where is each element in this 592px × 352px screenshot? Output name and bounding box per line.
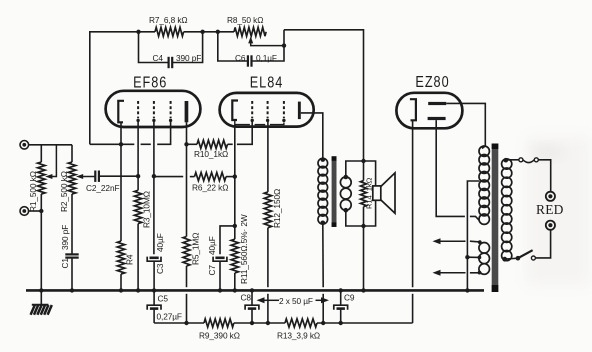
- EF86 cathode electrode: [118, 101, 124, 123]
- wire: cathode/g3/feedback junction line under EF86: [90, 120, 171, 144]
- capacitor C8: [245, 290, 259, 323]
- junction dot C7 top: [233, 224, 237, 228]
- svg-text:C9: C9: [344, 293, 355, 303]
- wire EF86 cathode lead down through R4: [120, 122, 122, 241]
- wire g2 to R6: [154, 176, 195, 178]
- svg-text:R13_3,9 kΩ: R13_3,9 kΩ: [277, 331, 320, 341]
- svg-text:C2_22nF: C2_22nF: [86, 183, 119, 193]
- label EZ80: [415, 74, 449, 91]
- wire terminal2 to R1 bottom lead: [29, 210, 42, 212]
- heater supply lead bottom with arrow: [433, 270, 482, 276]
- svg-text:R6_22 kΩ: R6_22 kΩ: [192, 183, 228, 193]
- capacitor C3 electrolytic: [147, 257, 161, 291]
- power transformer HT secondary winding: [479, 146, 489, 224]
- junction dot C6 left on top wire: [216, 30, 220, 34]
- annotation 2 x 50 uF with arrows: [257, 296, 330, 306]
- junction dot anode/R10: [184, 142, 188, 146]
- svg-text:40µF: 40µF: [155, 233, 165, 252]
- junction dot g2/R6/C3: [152, 174, 156, 178]
- wire EF86 g2 lead down to C3: [153, 120, 155, 254]
- svg-text:EZ80: EZ80: [415, 74, 449, 91]
- output transformer primary winding: [318, 157, 328, 225]
- svg-text:390 pF: 390 pF: [176, 53, 201, 63]
- junction dot C8 bottom: [250, 321, 254, 325]
- output transformer secondary winding: [340, 175, 351, 213]
- ground rail: [26, 289, 484, 292]
- chassis ground symbol: [31, 290, 52, 314]
- junction dot EF86 cathode node: [119, 142, 123, 146]
- wire secondary bottom / speaker bottom return: [346, 200, 376, 226]
- svg-text:R8_50 kΩ: R8_50 kΩ: [227, 15, 263, 25]
- EL84 anode plate: [298, 102, 301, 120]
- junction dot heater CT on ground drop: [465, 255, 469, 259]
- capacitor C6: [218, 30, 284, 67]
- junction dot R14 bottom: [361, 224, 365, 228]
- svg-text:RED: RED: [536, 202, 564, 217]
- RED terminal top: [546, 192, 555, 201]
- junction dot R12 on sub rail: [266, 321, 270, 325]
- EZ80 cathode electrode: [410, 99, 416, 120]
- EF86 anode plate: [185, 101, 189, 122]
- label EL84: [250, 74, 284, 91]
- svg-text:EL84: EL84: [250, 74, 284, 91]
- B+ sub rail from C5 to EZ80 cathode: [154, 322, 413, 324]
- svg-text:C8: C8: [241, 293, 252, 303]
- wire mains top to fuse: [504, 158, 519, 163]
- vacuum tube EZ80 envelope: [396, 93, 462, 129]
- heater centre tap: [467, 256, 481, 260]
- svg-text:R2_500 kΩ: R2_500 kΩ: [59, 171, 69, 212]
- wire EZ80 cathode down to B+ sub-rail: [412, 120, 414, 323]
- wire primary bottom down to B+ sub-rail: [322, 223, 324, 323]
- EL84 cathode electrode: [232, 101, 238, 121]
- resistor R3 grid leak: [134, 190, 141, 290]
- svg-text:C7: C7: [207, 265, 217, 276]
- resistor R4 (EF86 cathode): [117, 241, 124, 290]
- svg-text:EF86: EF86: [133, 74, 167, 91]
- svg-text:2 x 50 µF: 2 x 50 µF: [279, 296, 313, 306]
- label EF86: [133, 74, 167, 91]
- resistor R5: [183, 237, 190, 324]
- svg-text:0,1µF: 0,1µF: [256, 53, 277, 63]
- capacitor C1 in R2 ground leg: [65, 254, 78, 290]
- wire speaker return to ground rail: [363, 226, 365, 290]
- EZ80 anode 2 (bottom bar): [428, 117, 446, 120]
- svg-text:C4: C4: [153, 53, 164, 63]
- input terminal bottom: [20, 207, 29, 216]
- wire terminal1 to R1 top and R2 top: [29, 144, 72, 146]
- wire EZ80 anode1 to HT winding top: [446, 103, 485, 148]
- capacitor C2 coupling to EF86 grid: [95, 171, 138, 182]
- junction dots on ground rail: [39, 288, 469, 292]
- svg-text:R9_390 kΩ: R9_390 kΩ: [199, 331, 240, 341]
- vacuum tube EL84 envelope: [220, 93, 314, 127]
- svg-text:C1: C1: [60, 258, 70, 269]
- junction dot C2/g1/R3: [136, 174, 140, 178]
- potentiometer R1 with leads: [38, 145, 45, 291]
- EL84 grid 1: [251, 101, 254, 122]
- wire EZ80 anode2 down and right to HT winding bottom: [436, 120, 479, 220]
- junction dot R5 on sub rail: [184, 321, 188, 325]
- wire: feedback line from EF86 cathode up and along top: [90, 32, 234, 145]
- EZ80 anode 1 (top bar): [428, 102, 446, 105]
- junction dot C9 bottom: [339, 321, 343, 325]
- wire: top feedback run to output, down to secondary: [284, 30, 364, 161]
- resistor R7: [155, 27, 184, 36]
- wiper arrow of R8: [248, 36, 284, 45]
- resistor R9: [204, 319, 234, 327]
- junction dot primary feed on sub rail: [321, 321, 325, 325]
- wire secondary top to speaker box top: [346, 161, 376, 186]
- wiper arrow of R2: [76, 174, 95, 179]
- EF86 grid 3 (suppressor): [169, 101, 172, 122]
- resistor R6: [195, 173, 235, 181]
- svg-text:C6: C6: [235, 53, 246, 63]
- svg-text:R14_1kΩ: R14_1kΩ: [365, 177, 374, 209]
- junction dot terminal2/R1: [39, 209, 43, 213]
- output transformer core: [332, 156, 337, 227]
- resistor R10 grid stopper with leads: [187, 120, 253, 148]
- wire EF86 anode lead down to R5 and sub-rail: [186, 122, 188, 236]
- svg-text:390 pF: 390 pF: [60, 225, 70, 250]
- potentiometer R8 (feedback adjust, right end open): [234, 27, 266, 36]
- wire EL84 anode to output transformer primary: [301, 113, 323, 159]
- potentiometer R2 with leads: [68, 145, 75, 254]
- mains switch (open): [502, 250, 535, 261]
- wire EL84 g2 lead down to R12: [267, 120, 269, 191]
- fuse: [519, 158, 538, 163]
- power transformer mains primary winding: [502, 159, 512, 261]
- wire cathode-g3 tie inside EL84: [235, 120, 284, 125]
- heater supply lead top with arrow: [433, 238, 482, 244]
- junction dot feedback/secondary top: [361, 159, 365, 163]
- input terminal top: [20, 141, 29, 150]
- capacitor C5: [147, 290, 161, 323]
- EL84 grid 2: [266, 101, 269, 122]
- resistor R12 screen feed: [264, 192, 271, 323]
- svg-text:R3_10MΩ: R3_10MΩ: [142, 191, 152, 228]
- svg-text:R1_500 kΩ: R1_500 kΩ: [28, 171, 38, 212]
- wire fuse to RED terminal top: [538, 160, 550, 192]
- svg-text:C5: C5: [158, 294, 169, 304]
- wire HT centre tap to ground: [467, 181, 479, 290]
- RED terminal bottom: [546, 221, 555, 230]
- svg-text:R4: R4: [125, 254, 135, 265]
- junction dot C4 left on top wire: [136, 30, 140, 34]
- vacuum tube EF86 envelope: [106, 91, 201, 127]
- power transformer core: [492, 144, 499, 293]
- loudspeaker: [373, 173, 395, 213]
- EL84 grid 3: [282, 101, 285, 122]
- EF86 grid 2 (screen): [152, 101, 155, 122]
- svg-text:40µF: 40µF: [207, 236, 217, 255]
- EF86 grid 1: [136, 101, 139, 122]
- wire EL84 cathode lead down: [234, 125, 236, 240]
- junction dot wiper/C6/feedback node: [282, 43, 286, 47]
- junction dot C4 right on top wire: [200, 30, 204, 34]
- capacitor C9: [334, 290, 348, 323]
- capacitor C4: [139, 32, 203, 68]
- resistor R11 cathode bias: [231, 239, 238, 290]
- svg-text:C3: C3: [155, 263, 165, 274]
- power transformer heater winding: [479, 243, 490, 275]
- wiper arrow of R1: [45, 145, 56, 179]
- resistor R13: [285, 319, 317, 327]
- svg-text:R5_1MΩ: R5_1MΩ: [191, 233, 201, 265]
- svg-text:R11_560Ω.5%· 2W: R11_560Ω.5%· 2W: [239, 214, 249, 284]
- svg-text:0,27µF: 0,27µF: [157, 312, 182, 322]
- wire EF86 g1 lead down: [137, 120, 139, 190]
- wire RED bottom terminal to mains switch: [536, 230, 551, 258]
- resistor R14 damping: [361, 161, 367, 226]
- junction dot R6/EL84 cathode: [233, 174, 237, 178]
- svg-text:R10_1kΩ: R10_1kΩ: [194, 149, 228, 159]
- svg-text:R12_150Ω: R12_150Ω: [272, 189, 282, 228]
- svg-text:R7_6,8 kΩ: R7_6,8 kΩ: [149, 15, 188, 25]
- capacitor C7 electrolytic bypass: [213, 226, 235, 291]
